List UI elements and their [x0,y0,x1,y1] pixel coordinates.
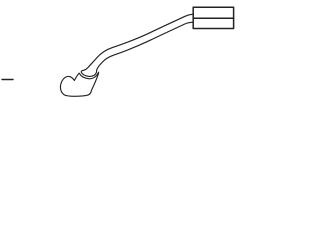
small dash bottom-left [2,79,13,81]
brake wear sensor line drawing [0,0,300,106]
wire upper line with collar rim curl [81,14,193,76]
connector mid line [193,17,233,19]
connector body [193,7,233,28]
boot body [60,72,98,96]
wire lower line [97,22,194,71]
